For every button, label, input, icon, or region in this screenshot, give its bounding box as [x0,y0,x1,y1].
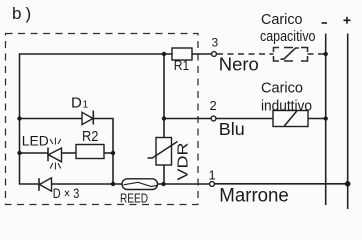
svg-text:Marrone: Marrone [219,186,288,207]
supply line negative [325,34,327,206]
diode D x 3 [39,178,79,201]
wire top rail [20,53,173,55]
wire R1 to terminal 3 [192,53,212,55]
resistor R1 [172,48,192,73]
label Blu [219,119,245,139]
label Carico capacitivo [260,12,316,45]
wire Blu branch [164,118,211,120]
svg-text:Blu: Blu [219,119,245,139]
wire bottom rail middle [52,183,123,185]
wire inductive load to supply line [308,118,326,120]
svg-text:induttivo: induttivo [261,99,312,115]
wire R2 to sub-rail [104,152,113,154]
svg-text:2: 2 [210,98,217,113]
junction REED / VDR [161,182,165,186]
reed switch REED [120,179,158,206]
label b) [12,4,35,23]
supply line positive [347,34,349,210]
diode D1 [71,94,93,124]
wire dashed terminal 3 to capacitive load [217,53,274,55]
junction left rail / D1 row [17,116,21,120]
resistor R2 [76,129,104,159]
wire D1 row right with corner down [93,119,113,185]
terminal 3 [212,36,219,57]
wire LED row left [20,152,49,154]
wire dashed capacitive load to supply line [308,53,326,55]
svg-text:REED: REED [120,192,148,206]
device dashed enclosure [6,34,199,205]
svg-text:Carico: Carico [261,81,303,97]
minus sign [322,22,328,24]
svg-text:capacitivo: capacitivo [260,29,316,45]
wire left rail [19,53,21,184]
svg-text:Carico: Carico [261,12,303,28]
wire bottom rail left [20,183,40,185]
wire middle rail lower [163,165,165,184]
plus sign [344,17,351,24]
junction middle rail / Blu [162,116,166,120]
junction Marrone / positive line [345,181,351,187]
junction capacitive load / negative line [324,52,328,56]
wire middle rail upper [163,54,165,138]
wire D1 row left [20,118,83,120]
svg-text:R2: R2 [82,129,98,145]
terminal 1 [209,167,216,186]
junction sub-rail / bottom rail [111,182,115,186]
svg-text:VDR: VDR [175,142,192,180]
LED [22,132,62,169]
junction left rail / LED row [17,151,21,155]
svg-text:D1: D1 [71,94,89,111]
svg-text:1: 1 [209,167,216,182]
label Marrone [219,186,288,207]
wire Marrone branch [215,183,348,185]
junction sub-rail / R2 [111,151,115,155]
svg-text:b): b) [12,4,35,23]
varistor VDR [148,138,192,181]
label Nero [219,54,259,75]
inductive load box [273,111,308,127]
capacitive load box (dashed) [274,48,308,62]
terminal 2 [210,98,217,121]
label Carico induttivo [261,81,312,115]
junction inductive load / negative line [324,116,328,120]
svg-text:Nero: Nero [219,54,259,75]
svg-text:LED: LED [22,132,49,148]
wire bottom rail right to terminal 1 [158,183,210,185]
junction top rail / R1 [162,52,166,56]
wire terminal 2 to inductive load [216,118,273,120]
svg-text:3: 3 [212,36,219,50]
svg-text:D × 3: D × 3 [53,186,80,201]
wire LED to R2 [62,152,77,154]
svg-text:R1: R1 [174,57,190,73]
